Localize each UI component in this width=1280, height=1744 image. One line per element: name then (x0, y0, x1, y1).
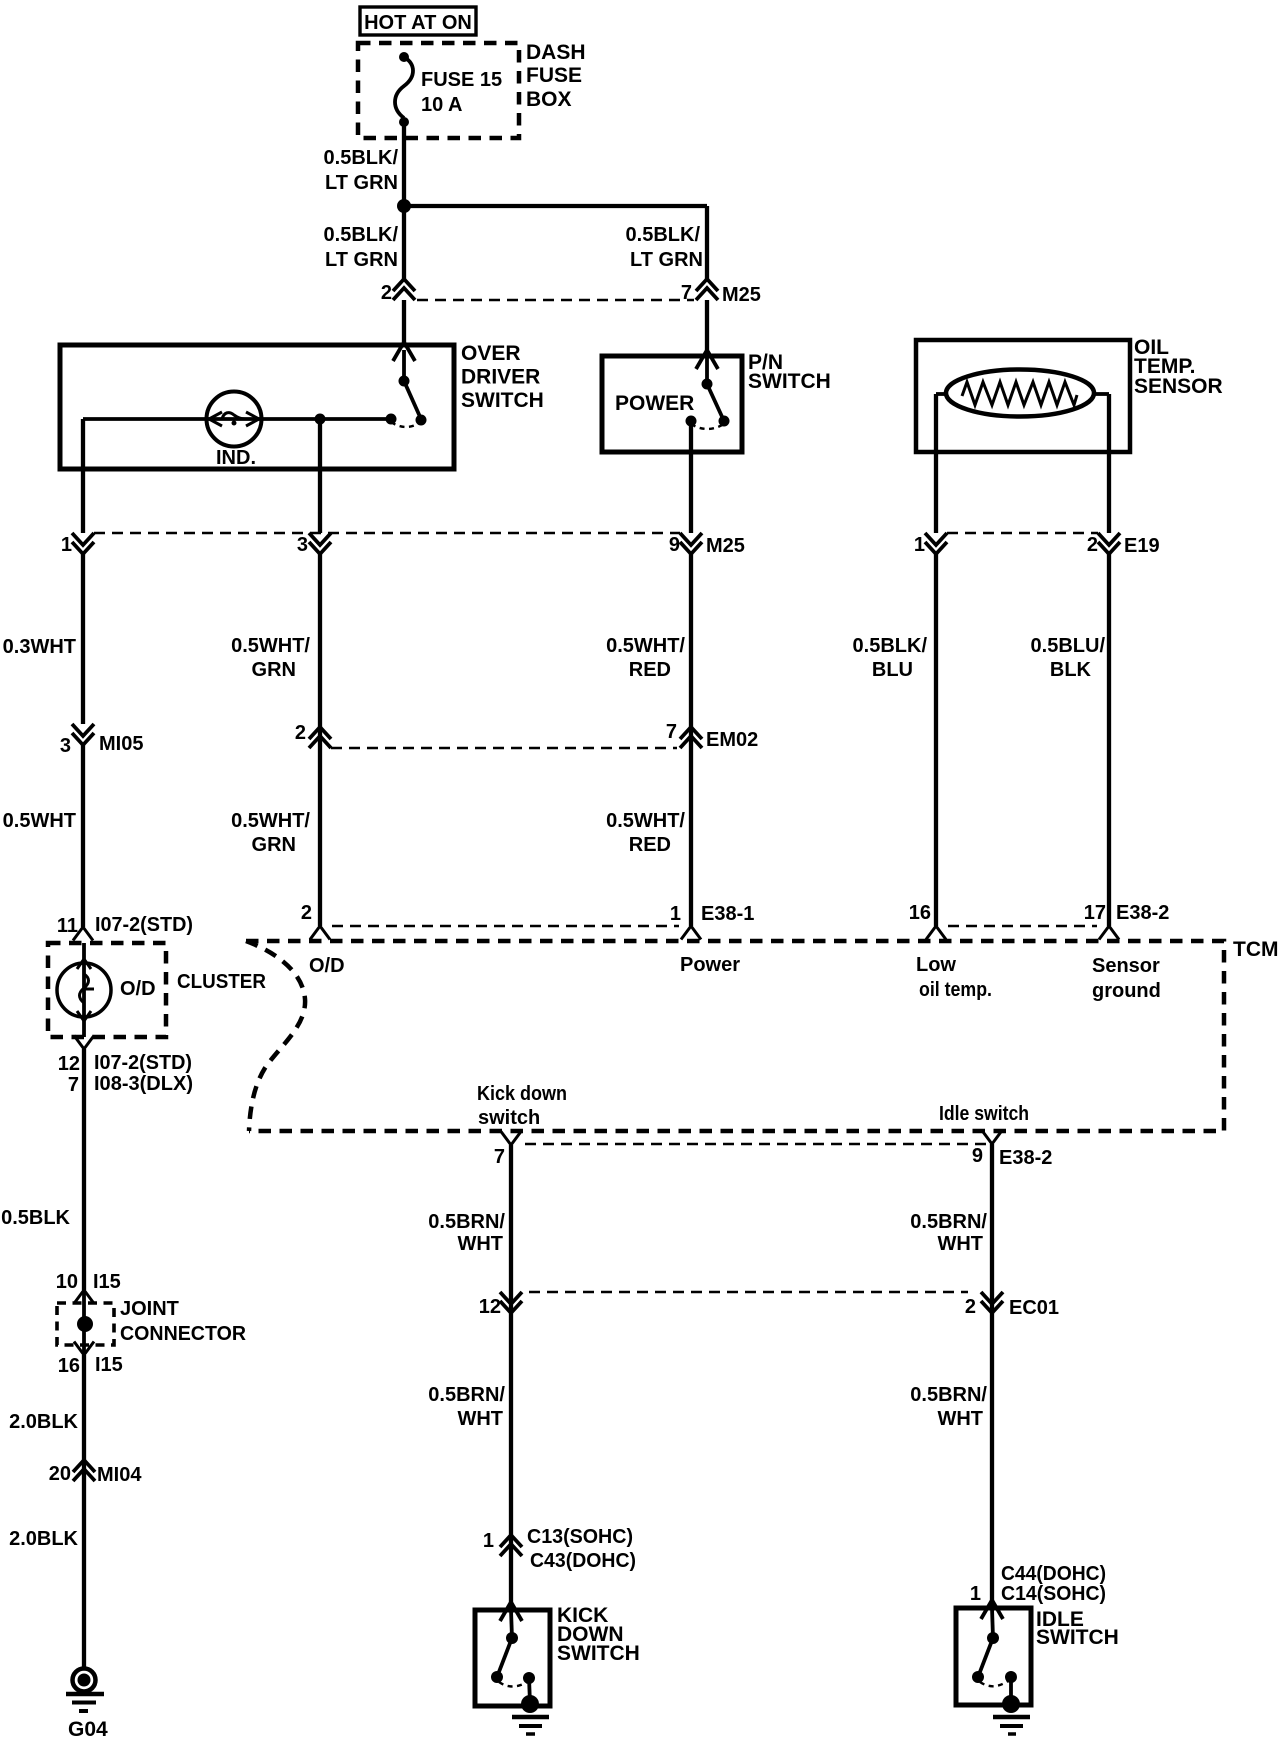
wire to case ground (1009, 1677, 1013, 1703)
kick down switch blade (497, 1638, 512, 1677)
svg-text:1: 1 (914, 534, 925, 556)
cluster pin 11 (73, 927, 93, 941)
TCM box (dashed) (246, 941, 1224, 1131)
svg-text:GRN: GRN (252, 659, 296, 681)
joint connector pin 10 I15 (74, 1290, 94, 1304)
svg-text:RED: RED (629, 659, 671, 681)
ground G04 (73, 1669, 96, 1692)
wire col E down (1107, 394, 1111, 533)
svg-text:0.5BLK/: 0.5BLK/ (853, 635, 928, 657)
svg-text:17: 17 (1084, 902, 1106, 924)
P/N switch box (602, 356, 742, 452)
connector M25 pin 7 (696, 279, 718, 300)
svg-text:2: 2 (301, 902, 312, 924)
svg-text:POWER: POWER (615, 392, 694, 415)
O/D lamp (57, 963, 111, 1017)
svg-text:EC01: EC01 (1009, 1297, 1059, 1319)
svg-text:OVER: OVER (461, 342, 521, 365)
wire 2.0BLK to ground (82, 1355, 86, 1668)
wire col C lower (689, 748, 693, 926)
connector MI04 pin 20 (73, 1460, 95, 1481)
wire col E long (1107, 554, 1111, 926)
TCM pin 16 (Low oil temp) (926, 926, 946, 940)
svg-text:0.5BRN/: 0.5BRN/ (428, 1384, 505, 1406)
wire idle 0.5BRN/WHT (990, 1144, 994, 1610)
wire to element left (936, 392, 947, 396)
wire col B down (318, 419, 322, 533)
wire fuse output 0.5BLK/LT GRN (402, 122, 406, 207)
svg-text:HOT AT ON: HOT AT ON (364, 12, 472, 34)
svg-text:0.5WHT/: 0.5WHT/ (231, 810, 310, 832)
svg-text:LT GRN: LT GRN (325, 172, 398, 194)
svg-text:C14(SOHC): C14(SOHC) (1001, 1583, 1106, 1605)
svg-text:BLK: BLK (1050, 659, 1092, 681)
wire col A (81, 554, 85, 724)
wire pin to contact (402, 350, 406, 381)
wire kick down 0.5BRN/WHT (509, 1145, 513, 1612)
svg-text:oil temp.: oil temp. (919, 979, 992, 1001)
svg-text:WHT: WHT (937, 1233, 983, 1255)
svg-text:16: 16 (58, 1355, 80, 1377)
wire pin to contact (705, 358, 709, 384)
svg-text:SENSOR: SENSOR (1134, 375, 1223, 398)
joint connector pin 16 I15 (74, 1342, 94, 1356)
svg-text:0.5BRN/: 0.5BRN/ (910, 1384, 987, 1406)
wire branch to P/N switch (404, 204, 707, 208)
svg-text:0.5BLK/: 0.5BLK/ (324, 147, 399, 169)
TCM pin 1 E38-1 (Power) (681, 926, 701, 940)
svg-text:12: 12 (58, 1053, 80, 1075)
svg-text:SWITCH: SWITCH (748, 370, 831, 393)
wire down to M25 pin 7 (705, 206, 709, 279)
wire down to M25 pin 2 (402, 206, 406, 279)
connector M25 pin 9 (680, 533, 702, 554)
connector pin 3 (309, 533, 331, 554)
svg-text:7: 7 (494, 1146, 505, 1168)
svg-text:2: 2 (295, 722, 306, 744)
junction (315, 414, 326, 425)
wire col A lower (81, 745, 85, 927)
lamp wire (82, 943, 86, 1037)
TCM pin 9 E38-2 (idle) (982, 1131, 1002, 1145)
TCM pin 17 E38-2 (Sensor ground) (1099, 926, 1119, 940)
svg-text:CONNECTOR: CONNECTOR (120, 1323, 247, 1345)
P/N switch blade (707, 384, 724, 421)
case ground kick down (521, 1695, 539, 1713)
svg-text:11: 11 (57, 915, 78, 937)
wire col C (689, 554, 693, 748)
pin of kick down switch (500, 1602, 522, 1621)
svg-text:20: 20 (49, 1463, 71, 1485)
svg-text:10 A: 10 A (421, 94, 463, 116)
wire to element right (1093, 392, 1109, 396)
svg-text:0.5BLK/: 0.5BLK/ (626, 224, 701, 246)
svg-text:1: 1 (670, 903, 681, 925)
dashed connector link EC01 row (529, 1291, 968, 1294)
svg-text:TCM: TCM (1233, 938, 1279, 961)
svg-text:DASH: DASH (526, 41, 586, 64)
dash fuse box (dashed) (358, 43, 519, 138)
svg-text:Sensor: Sensor (1092, 955, 1160, 977)
pin 1 of idle switch (981, 1600, 1003, 1619)
switch contacts (399, 376, 410, 387)
svg-text:Power: Power (680, 954, 740, 976)
svg-text:O/D: O/D (120, 978, 156, 1000)
wire to P/N switch (705, 300, 709, 350)
svg-text:SWITCH: SWITCH (557, 1642, 640, 1665)
svg-text:M25: M25 (706, 535, 745, 557)
svg-text:E38-2: E38-2 (1116, 902, 1169, 924)
svg-text:IND.: IND. (216, 447, 256, 469)
wire to overdrive switch (402, 300, 406, 342)
svg-text:LT GRN: LT GRN (325, 249, 398, 271)
case ground idle (1002, 1695, 1020, 1713)
svg-text:E38-1: E38-1 (701, 903, 754, 925)
svg-text:9: 9 (972, 1145, 983, 1167)
svg-text:0.5WHT/: 0.5WHT/ (606, 635, 685, 657)
svg-text:2: 2 (381, 282, 392, 304)
svg-text:0.5WHT/: 0.5WHT/ (231, 635, 310, 657)
svg-text:LT GRN: LT GRN (630, 249, 703, 271)
joint node (77, 1316, 93, 1332)
svg-text:G04: G04 (68, 1718, 108, 1741)
svg-text:M25: M25 (722, 284, 761, 306)
dashed connector link row (94, 532, 680, 535)
svg-text:O/D: O/D (309, 955, 345, 977)
dashed link pins 7-9 (525, 1143, 986, 1146)
svg-text:12: 12 (479, 1296, 501, 1318)
connector E19 pin 1 (925, 533, 947, 554)
dashed connector link EM02 (331, 747, 677, 750)
svg-text:7: 7 (666, 721, 677, 743)
wire through joint (82, 1290, 86, 1355)
connector pin 1 (72, 533, 94, 554)
over driver switch box (60, 345, 454, 469)
connector E19 pin 2 (1098, 533, 1120, 554)
connector EM02 pin 7 (680, 727, 702, 748)
connector pin 12 (500, 1292, 522, 1313)
svg-text:2: 2 (965, 1296, 976, 1318)
cluster box (dashed) (48, 943, 166, 1037)
dashed connector link E19 (947, 532, 1098, 535)
svg-text:0.5BRN/: 0.5BRN/ (910, 1211, 987, 1233)
svg-text:EM02: EM02 (706, 729, 758, 751)
wire col B lower (318, 748, 322, 926)
svg-text:10: 10 (56, 1271, 78, 1293)
connector M25 pin 2 (393, 279, 415, 300)
wire col D long (934, 554, 938, 926)
pin of P/N switch (696, 350, 718, 369)
svg-text:MI04: MI04 (97, 1464, 142, 1486)
svg-text:WHT: WHT (457, 1233, 503, 1255)
svg-text:2.0BLK: 2.0BLK (9, 1411, 78, 1433)
svg-text:16: 16 (909, 902, 931, 924)
svg-text:SWITCH: SWITCH (461, 389, 544, 412)
svg-text:GRN: GRN (252, 834, 296, 856)
svg-text:0.5BLK: 0.5BLK (1, 1207, 70, 1229)
svg-text:2.0BLK: 2.0BLK (9, 1528, 78, 1550)
svg-text:WHT: WHT (937, 1408, 983, 1430)
sensor element ellipse (946, 370, 1094, 417)
svg-text:JOINT: JOINT (120, 1298, 179, 1320)
idle switch blade (978, 1638, 993, 1677)
svg-text:FUSE 15: FUSE 15 (421, 69, 502, 91)
wire col C down (689, 421, 693, 533)
dashed connector link M25 (417, 299, 694, 302)
resistive zigzag (962, 382, 1077, 405)
svg-text:I15: I15 (93, 1271, 121, 1293)
svg-text:WHT: WHT (457, 1408, 503, 1430)
fuse FUSE 15 10 A (399, 52, 409, 62)
svg-text:BLU: BLU (872, 659, 913, 681)
svg-text:SWITCH: SWITCH (1036, 1626, 1119, 1649)
joint connector box (dashed) (57, 1303, 114, 1345)
svg-text:switch: switch (478, 1107, 540, 1129)
svg-text:0.5WHT/: 0.5WHT/ (606, 810, 685, 832)
connector C13/C43 pin 1 (500, 1535, 522, 1556)
power tag HOT AT ON (360, 7, 476, 35)
pin of over driver switch (393, 342, 415, 361)
dashed link pins 16-17 (948, 925, 1097, 928)
svg-text:I15: I15 (95, 1354, 123, 1376)
svg-text:I08-3(DLX): I08-3(DLX) (94, 1073, 193, 1095)
svg-text:FUSE: FUSE (526, 64, 582, 87)
TCM pin 2 (O/D) (310, 926, 330, 940)
wire (992, 1608, 993, 1638)
wire to case ground (529, 1678, 530, 1703)
svg-text:Kick down: Kick down (477, 1083, 567, 1105)
dashed link pins 2-1 (332, 925, 679, 928)
svg-text:MI05: MI05 (99, 733, 143, 755)
svg-text:I07-2(STD): I07-2(STD) (95, 914, 193, 936)
connector MI05 pin 3 (72, 724, 94, 745)
svg-text:3: 3 (297, 534, 308, 556)
oil temp sensor box (916, 340, 1130, 452)
TCM pin 7 (kick down) (501, 1132, 521, 1146)
switch blade (404, 381, 421, 419)
dashed throw arc (391, 422, 421, 427)
svg-text:0.3WHT: 0.3WHT (3, 636, 76, 658)
indicator lamp IND. (207, 392, 262, 447)
idle switch box (956, 1608, 1031, 1705)
svg-text:ground: ground (1092, 980, 1161, 1002)
svg-text:1: 1 (61, 534, 72, 556)
svg-text:Low: Low (916, 954, 956, 976)
svg-text:CLUSTER: CLUSTER (177, 971, 267, 993)
svg-text:1: 1 (970, 1583, 981, 1605)
svg-text:DRIVER: DRIVER (461, 366, 540, 389)
svg-text:E38-2: E38-2 (999, 1147, 1052, 1169)
kick down switch box (475, 1610, 550, 1706)
junction node (397, 199, 411, 213)
wire col A down (81, 419, 85, 533)
wire col D down (934, 394, 938, 533)
wire 0.5BLK (82, 1049, 86, 1290)
svg-text:0.5BRN/: 0.5BRN/ (428, 1211, 505, 1233)
svg-text:BOX: BOX (526, 88, 572, 111)
wire lamp row (83, 417, 391, 421)
svg-text:C44(DOHC): C44(DOHC) (1001, 1563, 1106, 1585)
svg-text:E19: E19 (1124, 535, 1160, 557)
svg-text:C13(SOHC): C13(SOHC) (527, 1526, 633, 1548)
svg-text:3: 3 (60, 735, 71, 757)
svg-text:9: 9 (669, 534, 680, 556)
svg-text:0.5WHT: 0.5WHT (3, 810, 76, 832)
cluster pin 12 (74, 1036, 94, 1050)
svg-text:0.5BLU/: 0.5BLU/ (1031, 635, 1106, 657)
wire (511, 1610, 512, 1638)
svg-text:7: 7 (68, 1074, 79, 1096)
svg-text:C43(DOHC): C43(DOHC) (530, 1550, 636, 1572)
svg-text:1: 1 (483, 1530, 494, 1552)
svg-text:2: 2 (1087, 534, 1098, 556)
svg-text:RED: RED (629, 834, 671, 856)
svg-text:0.5BLK/: 0.5BLK/ (324, 224, 399, 246)
connector EC01 pin 2 (981, 1292, 1003, 1313)
svg-text:I07-2(STD): I07-2(STD) (94, 1052, 192, 1074)
connector EM02 pin 2 (309, 727, 331, 748)
svg-text:Idle switch: Idle switch (939, 1103, 1029, 1125)
wire col B (318, 554, 322, 748)
